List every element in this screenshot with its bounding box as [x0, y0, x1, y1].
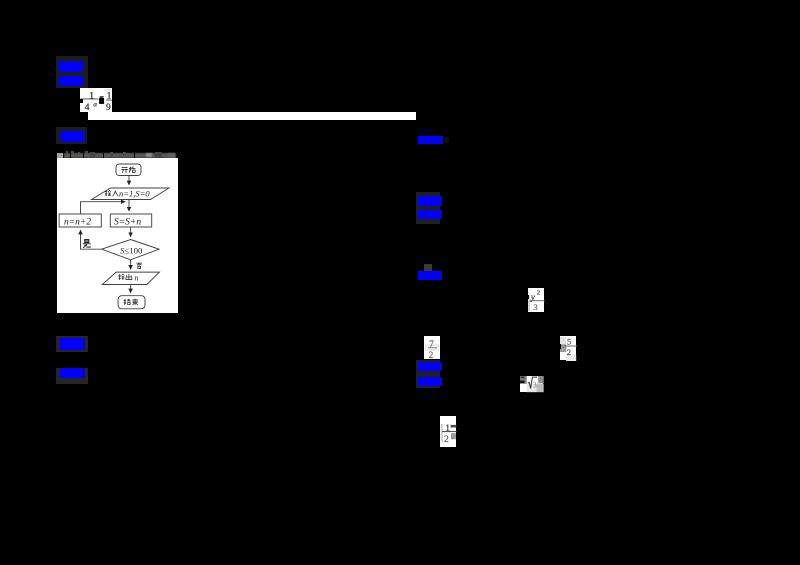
formula box (1/4)^a = 1/9: [80, 88, 112, 112]
svg-text:a: a: [93, 100, 97, 109]
7/2 box: [424, 336, 440, 359]
sqrt(3) mosaic box: [520, 376, 544, 392]
svg-text:n: n: [135, 274, 139, 283]
S=S+n box: [110, 214, 151, 227]
svg-text:1: 1: [445, 423, 450, 433]
1/2 box: [440, 416, 456, 447]
svg-text:n=1,S=0: n=1,S=0: [119, 189, 150, 199]
yes branch: diamond left -> up -> n=n+2: [81, 230, 102, 249]
输入 n=1,S=0: [105, 191, 111, 197]
svg-text:9: 9: [106, 103, 111, 112]
否: [136, 263, 142, 268]
white strip: [88, 112, 416, 120]
right column: blue bar A: [418, 136, 443, 144]
svg-text:3: 3: [532, 380, 536, 389]
arrow diamond -> output: [130, 260, 132, 269]
top-left highlight block backing: [56, 56, 88, 88]
svg-text:S≤100: S≤100: [120, 245, 143, 255]
svg-text:S=S+n: S=S+n: [114, 217, 141, 227]
arrow output -> end: [130, 285, 132, 293]
right blue bar B1: [418, 196, 442, 206]
right blue bar B2: [418, 210, 442, 219]
right lower pair: [416, 360, 440, 388]
flowchart white panel: [57, 158, 178, 313]
n=n+2 box: [59, 214, 101, 227]
start terminal: [116, 164, 141, 176]
= 5/2 box: [560, 336, 576, 360]
blue bar 1: [59, 61, 84, 72]
svg-text:5: 5: [567, 336, 571, 346]
arrow S=S+n -> diamond: [130, 227, 132, 237]
svg-text:2: 2: [537, 290, 540, 297]
svg-text:2: 2: [444, 435, 449, 445]
svg-text:4: 4: [85, 103, 90, 112]
svg-text:3: 3: [533, 302, 537, 312]
right pair backing: [416, 192, 440, 224]
gray question text line: [57, 153, 63, 159]
small highlight block: [56, 127, 87, 144]
arrow input->S=S+n: [128, 200, 130, 212]
input parallelogram: [92, 188, 170, 200]
svg-text:2: 2: [567, 347, 571, 357]
gray square + blue bar C: [424, 264, 432, 271]
blue bar 2: [59, 76, 84, 86]
black notch left of =5/2: [558, 344, 561, 349]
是: [83, 240, 91, 248]
svg-text:n=n+2: n=n+2: [64, 217, 91, 227]
end terminal: [118, 296, 145, 309]
black notch left of 1/2: [438, 429, 440, 434]
black notch over left edge of formula box: [75, 99, 83, 103]
diamond: [102, 240, 159, 260]
svg-text:2: 2: [429, 350, 434, 360]
output parallelogram: [102, 272, 159, 284]
left-bottom highlight 1: [56, 336, 88, 352]
feedback horizontal into main line: [81, 202, 126, 214]
输出 n: [118, 274, 124, 280]
y^2/3 box: [528, 288, 544, 312]
notches on y^2/3: [526, 295, 528, 299]
arrow start->input: [128, 176, 130, 185]
blue bar 3: [61, 131, 85, 142]
结束: [124, 299, 130, 305]
开始: [121, 168, 127, 173]
left-bottom highlight 2: [56, 368, 88, 384]
svg-text:7: 7: [429, 339, 434, 349]
